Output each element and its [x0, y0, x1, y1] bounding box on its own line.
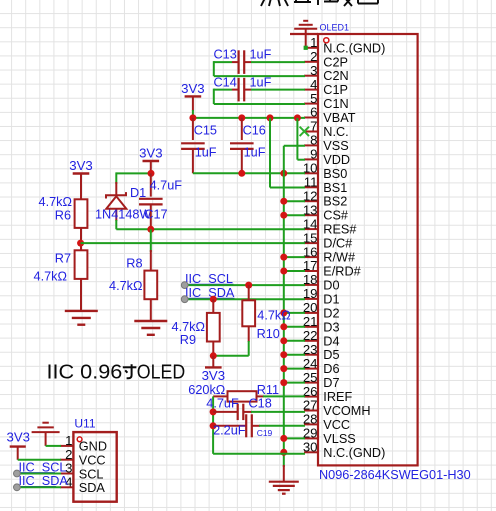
svg-text:R6: R6 — [55, 209, 71, 223]
svg-text:C1N: C1N — [323, 97, 348, 111]
svg-text:C16: C16 — [243, 124, 266, 138]
svg-text:29: 29 — [303, 426, 318, 441]
pin 5 C1N — [304, 103, 318, 105]
pin 10 BS0 — [304, 172, 318, 174]
svg-text:IREF: IREF — [323, 390, 352, 404]
svg-text:6: 6 — [310, 105, 317, 120]
ground GND top (pin1 OLED1) — [294, 21, 317, 29]
pin 17 E/RD# — [304, 270, 318, 272]
svg-text:D2: D2 — [323, 306, 339, 320]
svg-text:GND: GND — [79, 440, 107, 454]
svg-text:C18: C18 — [249, 397, 272, 411]
pin 19 D1 — [304, 298, 318, 300]
svg-text:OLED: OLED — [137, 362, 185, 384]
pin 13 CS# — [304, 214, 318, 216]
svg-text:C17: C17 — [144, 207, 167, 221]
svg-text:R/W#: R/W# — [323, 251, 355, 265]
wire C13 left jog to pin3 — [214, 61, 232, 63]
svg-text:C19: C19 — [257, 428, 273, 438]
svg-text:U11: U11 — [74, 416, 95, 430]
svg-text:R11: R11 — [257, 383, 279, 397]
svg-text:R8: R8 — [126, 257, 142, 271]
wire RES# to pin14 — [116, 228, 305, 230]
svg-text:E/RD#: E/RD# — [323, 265, 360, 279]
pin 18 D0 — [304, 284, 318, 286]
svg-text:2: 2 — [310, 49, 317, 64]
capacitor C19 — [210, 422, 217, 429]
svg-text:620kΩ: 620kΩ — [188, 383, 225, 397]
connector U11 box — [73, 432, 116, 502]
wire GND branch left (R11/C18/C19) — [212, 396, 214, 453]
pin 30 N.C.(GND) — [304, 451, 318, 453]
wire IIC_SCL to pin18 D0 — [185, 284, 305, 286]
U11 pin 4 SDA — [60, 486, 73, 488]
svg-text:26: 26 — [303, 384, 318, 399]
svg-text:R10: R10 — [257, 327, 280, 341]
svg-text:18: 18 — [303, 272, 318, 287]
svg-text:23: 23 — [303, 342, 318, 357]
pin 12 BS2 — [304, 200, 318, 202]
svg-text:1: 1 — [310, 35, 317, 50]
wire IIC_SDA to pin19 D1 — [185, 298, 305, 300]
resistor R7 — [75, 250, 88, 279]
svg-text:VCC: VCC — [323, 418, 350, 432]
ground GND (R8) — [150, 299, 152, 321]
pin 20 D2 — [304, 312, 318, 314]
wire 3V3 node to D1 top — [116, 172, 151, 174]
svg-text:VLSS: VLSS — [323, 432, 355, 446]
svg-text:11: 11 — [304, 175, 318, 190]
wire C13 right to pin2 — [251, 61, 305, 63]
svg-text:N.C.(GND): N.C.(GND) — [323, 41, 385, 55]
wire 3V3 to U11 pin2 VCC — [18, 459, 61, 461]
wire IIC_SDA to U11 pin4 — [17, 486, 61, 488]
svg-text:30: 30 — [303, 440, 318, 455]
svg-text:3: 3 — [310, 63, 317, 78]
svg-text:1: 1 — [65, 433, 72, 448]
wire R10 bottom to R9 bottom — [248, 341, 250, 356]
svg-text:4.7kΩ: 4.7kΩ — [257, 309, 290, 323]
U11 pin 2 VCC — [60, 459, 73, 461]
wire 3V3 to pin11 BS1 — [269, 118, 271, 188]
wire C14 right to pin4 — [251, 89, 305, 91]
svg-text:1uF: 1uF — [250, 75, 272, 89]
ground GND (R7) — [80, 279, 82, 311]
capacitor C13 — [238, 50, 240, 74]
connector OLED1 box — [318, 34, 418, 465]
svg-text:24: 24 — [303, 356, 318, 371]
wire D1 bottom to RES# — [115, 220, 117, 229]
svg-text:C15: C15 — [194, 124, 217, 138]
svg-text:8: 8 — [310, 133, 317, 148]
pin 9 VDD — [304, 158, 318, 160]
pin 7 N.C. — [304, 131, 318, 133]
svg-text:1uF: 1uF — [244, 146, 266, 160]
wire pin8 VSS to ground rail — [284, 145, 305, 147]
power 3V3 (R6) — [73, 172, 90, 174]
pin1 indicator circle U11 — [77, 437, 82, 442]
pin 22 D4 — [304, 340, 318, 342]
svg-text:9: 9 — [310, 147, 317, 162]
wire C14 left jog to pin5 — [214, 89, 232, 91]
svg-text:2.2uF: 2.2uF — [213, 424, 246, 438]
svg-text:SCL: SCL — [79, 467, 104, 481]
svg-text:1uF: 1uF — [195, 146, 217, 160]
svg-text:BS2: BS2 — [323, 195, 347, 209]
svg-text:5: 5 — [310, 91, 317, 106]
U11 pin 1 GND — [60, 445, 73, 447]
svg-text:3V3: 3V3 — [202, 368, 225, 383]
pin 24 D6 — [304, 368, 318, 370]
svg-text:16: 16 — [303, 244, 318, 259]
pin 28 VCC — [304, 423, 318, 425]
pin 6 VBAT — [304, 117, 318, 119]
svg-text:4.7kΩ: 4.7kΩ — [39, 195, 72, 209]
pin 27 VCOMH — [304, 410, 318, 412]
power 3V3 (VBAT rail) — [185, 95, 202, 97]
ground rail stubs — [284, 200, 305, 202]
svg-text:15: 15 — [303, 230, 318, 245]
svg-text:17: 17 — [303, 258, 318, 273]
svg-text:D5: D5 — [323, 348, 339, 362]
svg-text:19: 19 — [303, 286, 318, 301]
svg-text:25: 25 — [303, 370, 318, 385]
wire C15/C16 bottoms to pin10 BS0 — [193, 172, 305, 174]
pin 4 C1P — [304, 89, 318, 91]
svg-text:10: 10 — [303, 161, 318, 176]
svg-text:OLED1: OLED1 — [320, 23, 350, 33]
svg-text:4.7uF: 4.7uF — [206, 397, 239, 411]
wire C19 to pin28 VCC — [259, 425, 305, 427]
pin 1 N.C.(GND) — [304, 47, 318, 49]
svg-text:VCOMH: VCOMH — [323, 404, 370, 418]
wire divider to pin15 D/C# — [81, 242, 305, 244]
resistor R6 — [80, 174, 82, 200]
svg-text:3V3: 3V3 — [69, 158, 92, 173]
no-connect X at pin7 — [300, 127, 309, 136]
capacitor C14 — [238, 78, 240, 102]
power 3V3 (pullups, below) — [212, 356, 214, 368]
svg-text:N.C.(GND): N.C.(GND) — [323, 446, 385, 460]
capacitor C16 — [241, 118, 243, 140]
svg-text:D/C#: D/C# — [323, 237, 352, 251]
pin 23 D5 — [304, 354, 318, 356]
svg-text:4.7uF: 4.7uF — [150, 179, 183, 193]
svg-text:22: 22 — [303, 328, 318, 343]
svg-text:D6: D6 — [323, 362, 339, 376]
svg-text:BS1: BS1 — [323, 181, 347, 195]
U11 pin 3 SCL — [60, 473, 73, 475]
svg-text:R9: R9 — [180, 333, 196, 347]
wire R11 to pin26 IREF — [263, 395, 305, 397]
pin 21 D3 — [304, 326, 318, 328]
wire 3V3 to pin9 VDD — [296, 118, 298, 160]
svg-text:R7: R7 — [55, 251, 71, 265]
pin 11 BS1 — [304, 186, 318, 188]
svg-text:3V3: 3V3 — [181, 81, 204, 96]
svg-text:RES#: RES# — [323, 223, 356, 237]
diode D1 1N4148W — [115, 172, 117, 184]
capacitor C18 — [210, 408, 217, 415]
capacitor C15 — [192, 118, 194, 140]
svg-text:VCC: VCC — [79, 454, 106, 468]
svg-text:4.7kΩ: 4.7kΩ — [34, 269, 67, 283]
svg-text:C2P: C2P — [323, 55, 348, 69]
wire U11 pin1 to ground — [46, 445, 61, 447]
svg-text:CS#: CS# — [323, 209, 348, 223]
svg-text:D7: D7 — [323, 376, 339, 390]
pin 2 C2P — [304, 61, 318, 63]
svg-text:14: 14 — [303, 216, 318, 231]
svg-text:4.7kΩ: 4.7kΩ — [109, 279, 142, 293]
svg-text:N096-2864KSWEG01-H30: N096-2864KSWEG01-H30 — [319, 468, 471, 482]
svg-text:C1P: C1P — [323, 83, 348, 97]
pin 26 IREF — [304, 396, 318, 398]
resistor R8 — [150, 229, 152, 252]
svg-text:27: 27 — [303, 398, 318, 413]
svg-text:12: 12 — [303, 188, 318, 203]
svg-text:C2N: C2N — [323, 69, 348, 83]
pin 8 VSS — [304, 144, 318, 146]
wire IIC_SCL to U11 pin3 — [17, 473, 61, 475]
svg-text:VBAT: VBAT — [323, 111, 355, 125]
title text (partially cut-off) — [261, 0, 378, 6]
node VBAT junctions — [189, 114, 196, 121]
svg-text:D0: D0 — [323, 278, 339, 292]
svg-text:7: 7 — [310, 119, 317, 134]
svg-text:IIC 0.96: IIC 0.96 — [47, 362, 123, 384]
pin 3 C2N — [304, 75, 318, 77]
svg-text:20: 20 — [303, 300, 318, 315]
svg-text:C14: C14 — [214, 75, 237, 89]
svg-text:BS0: BS0 — [323, 167, 347, 181]
svg-text:D3: D3 — [323, 320, 339, 334]
node divider junction — [77, 240, 84, 247]
svg-text:C13: C13 — [214, 47, 237, 61]
ground GND bottom right — [283, 465, 285, 482]
capacitor C17 — [150, 173, 152, 196]
resistor R10 — [245, 282, 252, 289]
pin 1 indicator circle — [324, 38, 329, 43]
svg-text:VDD: VDD — [323, 153, 350, 167]
svg-text:3V3: 3V3 — [139, 146, 162, 161]
pin 16 R/W# — [304, 256, 318, 258]
wire 3V3 to pin6 VBAT — [192, 110, 194, 118]
wire C18 to pin27 VCOMH — [251, 411, 305, 413]
power 3V3 (C17) — [143, 160, 160, 162]
svg-text:VSS: VSS — [323, 139, 348, 153]
svg-text:13: 13 — [303, 202, 318, 217]
wire R6 to R7 — [80, 228, 82, 250]
ground GND (U11 pin1) — [32, 423, 60, 432]
svg-text:21: 21 — [303, 314, 318, 329]
wire pin1 to ground — [290, 33, 318, 35]
svg-text:1uF: 1uF — [250, 47, 272, 61]
pin 15 D/C# — [304, 242, 318, 244]
svg-text:4: 4 — [310, 77, 317, 92]
svg-text:N.C.: N.C. — [323, 125, 348, 139]
svg-text:3V3: 3V3 — [7, 430, 30, 445]
svg-text:D4: D4 — [323, 334, 339, 348]
svg-text:D1: D1 — [323, 292, 339, 306]
resistor R9 — [210, 296, 217, 303]
pin 25 D7 — [304, 382, 318, 384]
pin 29 VLSS — [304, 437, 318, 439]
svg-text:SDA: SDA — [79, 481, 106, 495]
svg-text:1N4148W: 1N4148W — [95, 207, 151, 221]
svg-text:28: 28 — [303, 412, 318, 427]
pin 14 RES# — [304, 228, 318, 230]
